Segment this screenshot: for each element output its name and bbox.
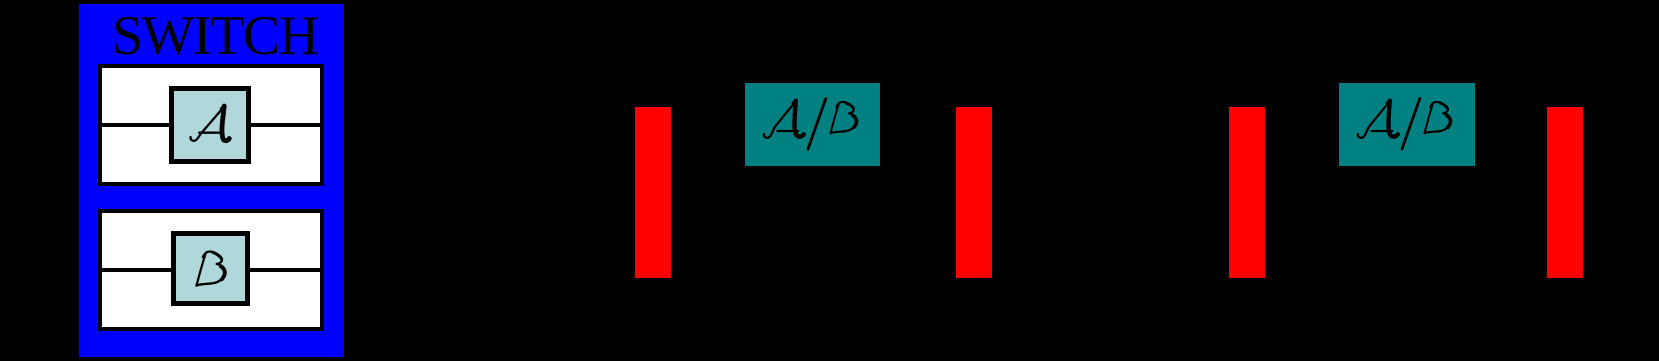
photon pulse 3 (red bar) — [1229, 107, 1265, 278]
channel box B (white) — [98, 209, 324, 331]
channel box A (white) — [98, 64, 324, 186]
A/B gate box 1 (teal) — [745, 83, 880, 166]
gate box A (pale teal) — [169, 86, 251, 164]
cal B — [831, 103, 840, 134]
glyph calligraphic A (switch) — [189, 103, 233, 147]
cal A — [1358, 101, 1390, 138]
cal B — [1425, 103, 1434, 134]
slash — [808, 99, 826, 150]
photon pulse 4 (red bar) — [1547, 107, 1583, 278]
wire through channel A — [102, 123, 320, 127]
photon pulse 1 (red bar) — [635, 107, 671, 278]
slash — [1402, 99, 1420, 150]
glyph A/B (box 1) — [763, 96, 863, 152]
glyph A/B (box 2) — [1357, 96, 1457, 152]
photon pulse 2 (red bar) — [956, 107, 992, 278]
A/B gate box 2 (teal) — [1339, 83, 1475, 166]
glyph calligraphic B (switch) — [193, 247, 231, 290]
cal A — [764, 101, 796, 138]
gate box B (pale teal) — [171, 231, 250, 306]
label SWITCH — [112, 8, 318, 64]
switch outer blue box — [79, 4, 344, 357]
wire through channel B — [102, 268, 320, 272]
